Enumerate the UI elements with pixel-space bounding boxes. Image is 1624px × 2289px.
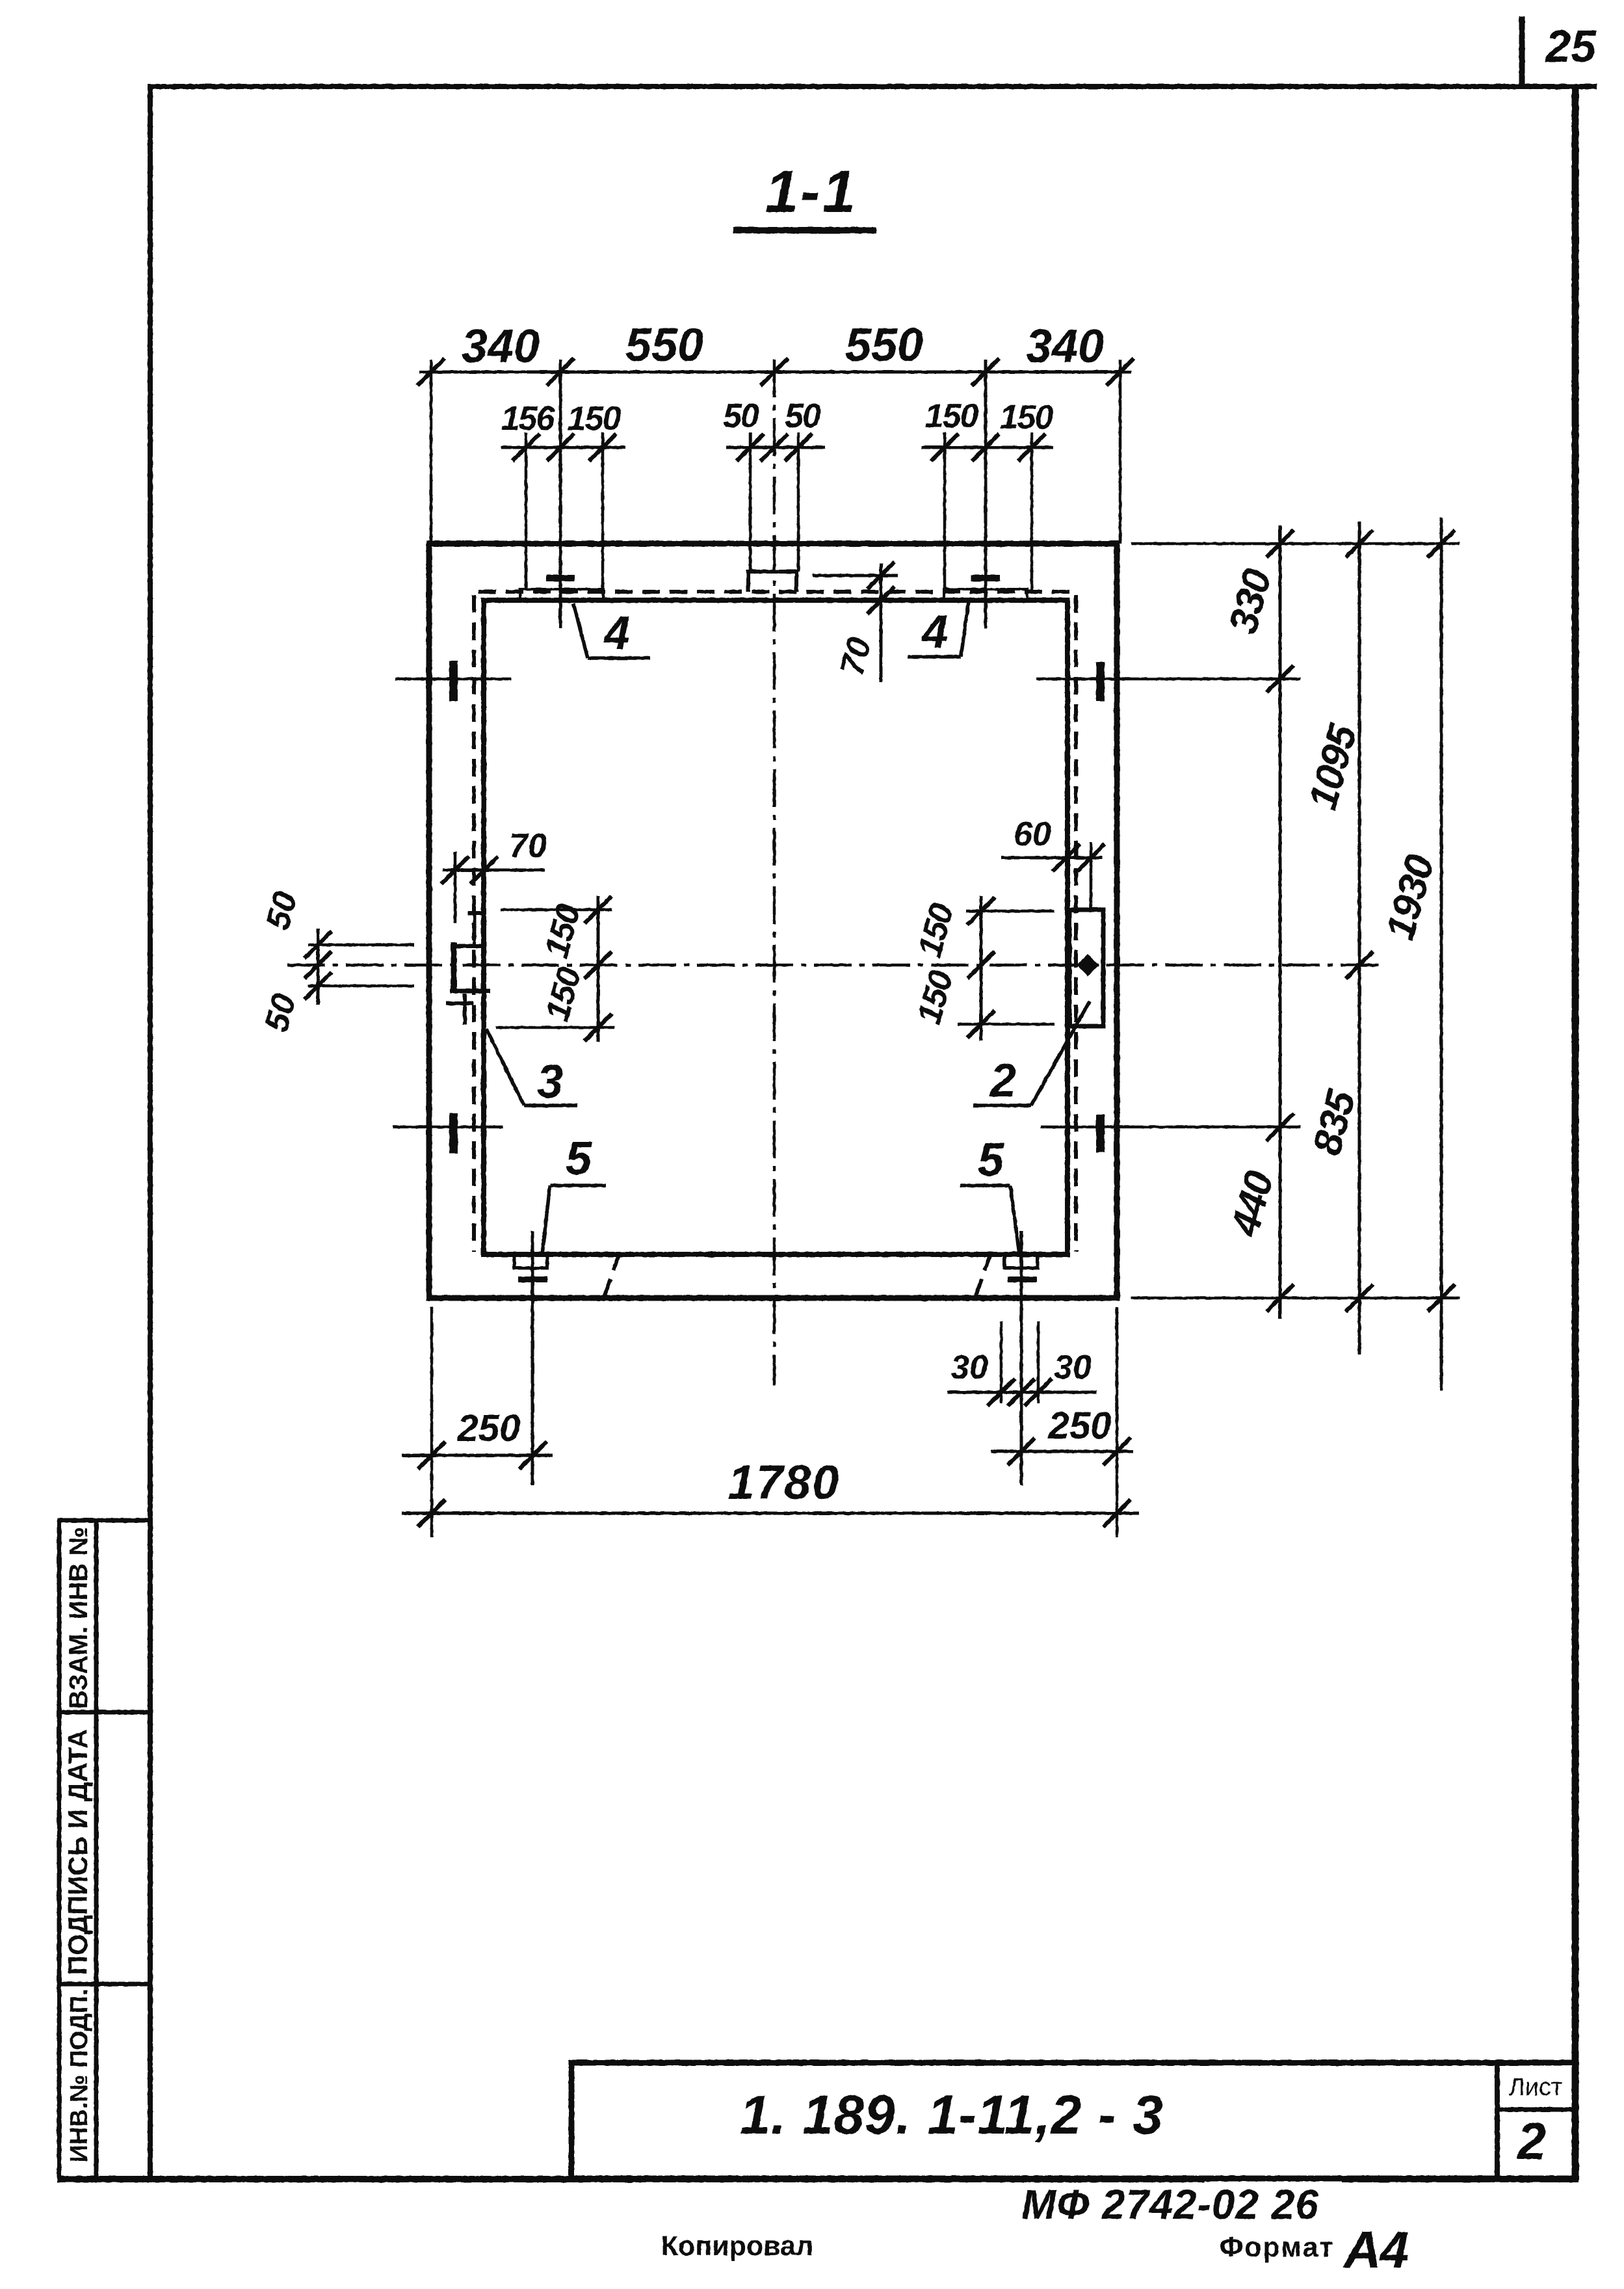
svg-text:3: 3 [537, 1056, 563, 1108]
level line upper left [395, 678, 511, 681]
title block list box separator [1497, 2108, 1575, 2112]
rebar mark lower left [449, 1113, 458, 1154]
level line lower right [1041, 1126, 1300, 1129]
dimension line 250 right [991, 1450, 1133, 1453]
svg-text:550: 550 [625, 319, 703, 371]
dimension line 70 vertical top [880, 563, 883, 682]
svg-text:550: 550 [845, 319, 923, 371]
tick 150 mid-left at 1399 [584, 896, 612, 923]
tick at 1154 row2 mid [737, 434, 764, 461]
item 5 left anchor plate [514, 1254, 547, 1268]
dashed reinforcement line right [1074, 595, 1078, 1252]
tick x2091 at 1996 [1346, 1284, 1373, 1312]
extension line 927 [601, 432, 605, 590]
tick x1969 at 1044 [1266, 665, 1294, 693]
tick at 1453 row2 right [931, 434, 958, 461]
svg-text:70: 70 [509, 827, 547, 865]
vertical centerline [773, 360, 776, 1385]
extension line top edge right [1131, 542, 1460, 546]
sheet border frame bottom right segment [1342, 2176, 1578, 2182]
svg-text:150: 150 [925, 397, 979, 435]
svg-text:30: 30 [1054, 1349, 1092, 1386]
anchor loop 4 right rod [984, 360, 988, 628]
dimension line 50 50 left vertical [317, 929, 320, 1005]
tick 150 mid-left at 1580 [584, 1014, 612, 1041]
tick x2217 at 1996 [1428, 1284, 1455, 1312]
sheet border frame bottom left segment [57, 2176, 1205, 2182]
tick at 1516 row1 [972, 358, 999, 386]
svg-text:2: 2 [989, 1055, 1016, 1107]
svg-text:ВЗАМ. ИНВ №: ВЗАМ. ИНВ № [64, 1527, 93, 1709]
tick 150 mid-right at 1401 [967, 897, 995, 925]
svg-text:5: 5 [566, 1133, 592, 1185]
dimension line 150 150 mid-right vertical [980, 896, 983, 1040]
rebar mark upper left [449, 661, 458, 701]
tick x1969 at 836 [1266, 530, 1294, 557]
extension line x1597 [1037, 1321, 1040, 1403]
stamp column outer left edge [57, 1520, 62, 2179]
item 3 channel bracket vertical [451, 942, 457, 992]
tick at 862 row1 [547, 358, 574, 386]
extension line bracket face [454, 852, 457, 923]
extension line 1228 [797, 432, 800, 572]
tick at 1723 row1 [1107, 358, 1134, 386]
tick 70 top upper [867, 562, 895, 589]
tick at 1228 row2 mid [785, 434, 812, 461]
svg-text:Формат: Формат [1220, 2232, 1335, 2263]
tick at 1191 row2 mid [761, 434, 788, 461]
extension line y1401 right [966, 910, 1054, 913]
svg-text:250: 250 [1048, 1405, 1112, 1447]
dashed reinforcement line top [478, 590, 1073, 594]
tick x2091 at 1484 [1346, 951, 1373, 979]
svg-text:А4: А4 [1342, 2221, 1409, 2279]
svg-text:2: 2 [1516, 2112, 1547, 2170]
leader item 4 right underline [908, 655, 961, 659]
dimension line 30 30 [947, 1391, 1097, 1394]
extension line y1453 [308, 944, 414, 947]
dimension line 156 150 [501, 446, 625, 449]
svg-text:Лист: Лист [1509, 2074, 1563, 2101]
dimension line 60 [1001, 856, 1102, 860]
dimension line 1780 [402, 1512, 1139, 1515]
leader item 4 left underline [588, 656, 650, 660]
item 2 anchor diamond [1077, 954, 1099, 976]
item 5 left anchor stub [531, 1231, 534, 1485]
tick at 1191 row1 [761, 358, 788, 386]
tick 50 left at 1516 [304, 972, 332, 999]
horizontal centerline [287, 964, 1378, 967]
item 3 channel bracket top flange [451, 944, 482, 949]
tick x1969 at 1996 [1266, 1284, 1294, 1312]
item 5 right anchor plate [1004, 1254, 1038, 1268]
leader item 5 left underline [550, 1184, 606, 1187]
tick 150 mid-right at 1575 [967, 1011, 995, 1038]
tick at 862 row2 left [547, 434, 574, 461]
extension line right end [1119, 360, 1122, 544]
tick 60 b [1077, 844, 1105, 871]
tick 70 left a [441, 856, 469, 884]
dimension line 150 150 mid-left vertical [597, 896, 600, 1042]
item 5 right anchor stub [1020, 1231, 1023, 1485]
svg-text:1-1: 1-1 [765, 159, 858, 225]
leader item 2 underline [973, 1104, 1031, 1107]
item 3 upper anchor crossbar [468, 911, 484, 915]
extension line 1453 [943, 432, 947, 590]
tick 250R a [1008, 1438, 1035, 1465]
dimension line 70 left [443, 869, 545, 872]
tick 1780 a [418, 1500, 445, 1527]
tick at 1587 row2 right [1018, 434, 1045, 461]
svg-text:Копировал: Копировал [661, 2230, 814, 2262]
anchor loop 4 right embedded plate [944, 589, 1027, 600]
extension line y1399 [501, 908, 612, 912]
tick 250R b [1103, 1438, 1131, 1465]
item 5 left anchor bar [518, 1277, 547, 1282]
svg-text:150: 150 [568, 400, 622, 438]
item 3 lower anchor rod [463, 994, 467, 1025]
extension line left end [430, 360, 433, 544]
svg-text:5: 5 [978, 1134, 1004, 1186]
tick x1969 at 1733 [1266, 1113, 1294, 1141]
svg-text:МФ 2742-02 26: МФ 2742-02 26 [1021, 2181, 1319, 2228]
anchor loop 4 left head bar [546, 575, 575, 581]
svg-text:30: 30 [950, 1349, 988, 1386]
extension line y1580 [496, 1026, 614, 1029]
page number tick mark [1519, 16, 1525, 86]
inner opening rectangle [484, 600, 1067, 1254]
svg-text:1780: 1780 [728, 1455, 841, 1509]
leader item 4 left diagonal [573, 603, 588, 658]
dimension line 340 550 550 340 [419, 371, 1131, 374]
anchor loop 4 right head bar [971, 575, 1000, 581]
rebar mark upper right [1096, 662, 1105, 701]
extension line x1718 bottom [1116, 1307, 1119, 1537]
leader item 3 underline [524, 1104, 577, 1107]
extension line 1587 [1030, 432, 1034, 590]
tick 250L b [519, 1442, 547, 1469]
sheet border frame right [1572, 84, 1579, 2181]
extension line x1678 [1090, 842, 1093, 910]
tick 30-30 at 1597 [1025, 1379, 1052, 1406]
dimension line 250 left [402, 1454, 553, 1457]
tick 50 left at 1453 [304, 931, 332, 959]
top notch recess [746, 572, 750, 592]
tick at 663 row1 [417, 358, 445, 386]
svg-text:ИНВ.№ ПОДП.: ИНВ.№ ПОДП. [66, 1989, 93, 2163]
tick at 809 row2 left [512, 434, 540, 461]
leader item 2 diagonal [1031, 1001, 1090, 1105]
svg-text:150: 150 [1000, 399, 1054, 436]
leader item 5 left diagonal [542, 1185, 550, 1254]
tick 1780 b [1103, 1500, 1131, 1527]
extension line bottom edge right [1131, 1297, 1460, 1300]
extension line 809 [525, 432, 528, 590]
stamp column separator 1 [57, 1710, 150, 1715]
tick 250L a [418, 1442, 445, 1469]
dimension line 1930 vertical [1440, 518, 1443, 1390]
anchor loop 4 left rod [559, 360, 562, 628]
svg-text:250: 250 [457, 1407, 521, 1449]
dimension line 330-440 vertical [1279, 525, 1282, 1319]
svg-text:156: 156 [501, 400, 556, 438]
svg-text:4: 4 [921, 606, 948, 658]
tick at 927 row2 left [589, 434, 616, 461]
tick 30-30 at 1571 [1008, 1379, 1035, 1406]
extension line 1154 [749, 432, 752, 572]
item 3 upper anchor rod [473, 914, 477, 944]
extension line y1575 right [958, 1023, 1054, 1026]
dimension line 50 50 [726, 446, 825, 449]
tick 60 a [1053, 844, 1080, 871]
title block outline [571, 2063, 1575, 2178]
extension line y1516 [308, 985, 414, 988]
stamp column middle vertical [94, 1520, 99, 2179]
dashed reinforcement line left [472, 595, 476, 1252]
leader item 4 right diagonal [961, 602, 969, 657]
leader item 5 right underline [960, 1184, 1010, 1187]
anchor loop 4 left embedded plate [520, 589, 603, 600]
dimension line 150 150 right [921, 446, 1053, 449]
item 3 channel bracket bottom flange [450, 989, 490, 994]
break line bottom left [603, 1253, 620, 1299]
svg-text:ПОДПИСЬ И ДАТА: ПОДПИСЬ И ДАТА [62, 1729, 93, 1975]
leader item 3 diagonal [486, 1029, 524, 1105]
outer wall square [429, 544, 1117, 1298]
svg-text:340: 340 [462, 321, 540, 373]
break line bottom right [975, 1253, 991, 1299]
svg-text:60: 60 [1014, 815, 1051, 853]
svg-text:1. 189. 1-11,2 - 3: 1. 189. 1-11,2 - 3 [740, 2084, 1164, 2145]
level line upper right [1036, 678, 1300, 681]
tick x2217 at 836 [1428, 530, 1455, 557]
item 2 embedded box [1069, 910, 1103, 1026]
dimension line 1095-835 vertical [1358, 522, 1361, 1355]
level line lower left [393, 1126, 503, 1129]
svg-text:50: 50 [785, 397, 821, 435]
title block list box vertical [1495, 2063, 1500, 2178]
leader item 5 right diagonal [1010, 1185, 1019, 1254]
svg-text:25: 25 [1544, 21, 1597, 72]
tick 150 mid-right at 1484 [967, 951, 995, 979]
svg-text:340: 340 [1026, 321, 1104, 373]
sheet border frame left [148, 84, 153, 2181]
stamp column top edge [57, 1518, 150, 1523]
svg-text:50: 50 [723, 397, 759, 435]
stamp column separator 2 [57, 1982, 150, 1987]
tick 30-30 at 1540 [988, 1379, 1015, 1406]
item 3 lower anchor crossbar [446, 1001, 473, 1005]
tick 50 left at 1484 [304, 951, 332, 979]
tick x2091 at 836 [1346, 530, 1373, 557]
svg-text:4: 4 [603, 607, 630, 659]
tick 70 top lower [867, 587, 895, 614]
extension line x1540 [1000, 1321, 1003, 1403]
extension line x664 bottom [430, 1307, 434, 1537]
section title underline [733, 227, 876, 233]
tick at 1516 row2 right [972, 434, 999, 461]
tick 150 mid-left at 1484 [584, 951, 612, 979]
tick 70 left b [471, 856, 498, 884]
anchor level reference line for 70 dim [813, 574, 898, 577]
sheet border frame top [148, 84, 1597, 89]
rebar mark lower right [1096, 1115, 1105, 1152]
item 5 right anchor bar [1008, 1277, 1037, 1282]
